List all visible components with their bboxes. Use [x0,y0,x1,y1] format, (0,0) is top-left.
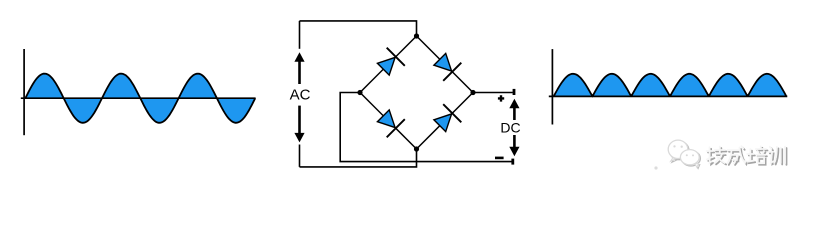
watermark character cheng (成) [728,149,740,151]
watermark small dot far left [654,166,657,169]
right waveform horizontal axis [549,95,788,97]
diode D3 lower-left: triangle [377,110,395,128]
watermark logo big bubble eyes [675,146,677,148]
left waveform vertical axis [23,49,25,135]
watermark character cheng (成) [729,151,741,153]
DC double arrow: up arrowhead [509,99,519,109]
watermark logo small bubble tail [695,163,699,167]
plus terminal tick [513,89,516,95]
watermark character ji (技) [711,149,713,165]
DC double arrow: down arrowhead [509,147,519,157]
watermark character pei (培) [749,149,751,161]
wire: DC plus from right node to plus terminal [473,92,513,94]
diode D2 upper-right: triangle [434,53,452,71]
watermark logo big bubble tail [672,159,677,162]
AC input sine waveform fill [25,74,255,123]
diode D4 lower-right: triangle [434,114,452,132]
wire: bottom horizontal AC to bridge bottom node [300,149,417,167]
right waveform vertical axis [551,49,553,124]
watermark text gray shadow layer [708,148,786,165]
watermark logo small bubble tail [696,165,700,169]
watermark logo big bubble tail [671,158,676,161]
watermark logo small bubble [682,151,701,166]
wire: diamond side bottom-left [360,93,417,150]
DC double arrow: upper shaft [513,107,516,121]
junction dot top node [414,33,419,38]
watermark text white top layer [707,146,785,163]
watermark character pei (培) [751,151,753,163]
watermark logo small bubble eyes [686,154,688,156]
minus terminal tick [511,159,514,165]
wire: diamond side bottom-right [417,93,474,150]
rectified DC output waveform fill [554,74,787,97]
wire: diamond side top-left [360,36,417,93]
watermark logo small bubble [680,150,699,165]
minus sign [495,157,504,160]
wire: AC left vertical top stub [299,21,301,49]
diode D4 lower-right: cathode bar [443,104,461,122]
watermark logo shadow layer [669,141,700,168]
watermark character xun (训) [771,148,773,150]
svg-text:DC: DC [500,120,520,136]
AC input sine waveform outline [25,74,255,123]
AC double arrow: upper shaft [298,61,301,85]
AC double arrow: up arrowhead [294,52,304,62]
wire: top horizontal AC to bridge top node [300,21,417,36]
DC double arrow: lower shaft [513,135,516,148]
diode D3 lower-left: cathode bar [387,119,405,137]
watermark character xun (训) [770,147,772,149]
AC double arrow: lower shaft [298,106,301,134]
wire: diamond side top-right [417,36,474,93]
wire: DC minus from left node to minus terminal [340,93,513,162]
junction dot right node [470,90,475,95]
wire: AC left vertical bottom stub [299,145,301,167]
junction dot bottom node [414,146,419,151]
svg-text:AC: AC [290,86,311,103]
diode D1 upper-left: cathode bar [387,48,405,66]
watermark logo small bubble eyes [687,155,689,157]
diode D2 upper-right: cathode bar [443,63,461,81]
AC double arrow: down arrowhead [294,133,304,143]
rectified DC output waveform outline [554,74,787,97]
left waveform horizontal axis [21,97,256,99]
diode D1 upper-left: triangle [377,57,395,75]
watermark logo big bubble [668,140,688,158]
watermark logo top layer [668,140,699,167]
watermark logo big bubble eyes [673,145,675,147]
junction dot left node [357,90,362,95]
watermark character ji (技) [710,147,712,163]
plus sign [498,95,504,101]
watermark logo big bubble [669,141,689,159]
